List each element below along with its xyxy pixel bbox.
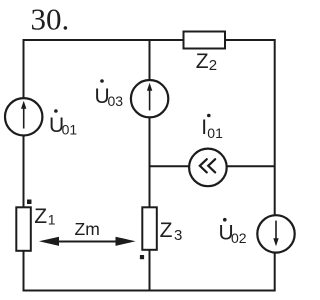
svg-text:03: 03 bbox=[108, 93, 124, 109]
svg-text:1: 1 bbox=[48, 212, 56, 228]
svg-text:01: 01 bbox=[207, 125, 223, 141]
svg-text:I: I bbox=[201, 116, 207, 139]
svg-text:Z: Z bbox=[160, 219, 173, 242]
svg-text:02: 02 bbox=[231, 230, 247, 246]
svg-text:Z: Z bbox=[34, 205, 47, 228]
svg-text:Z: Z bbox=[196, 50, 209, 73]
svg-text:3: 3 bbox=[174, 227, 182, 244]
svg-text:30.: 30. bbox=[31, 2, 70, 37]
svg-text:Zm: Zm bbox=[75, 219, 100, 239]
svg-text:2: 2 bbox=[209, 57, 217, 74]
svg-text:01: 01 bbox=[62, 121, 78, 137]
